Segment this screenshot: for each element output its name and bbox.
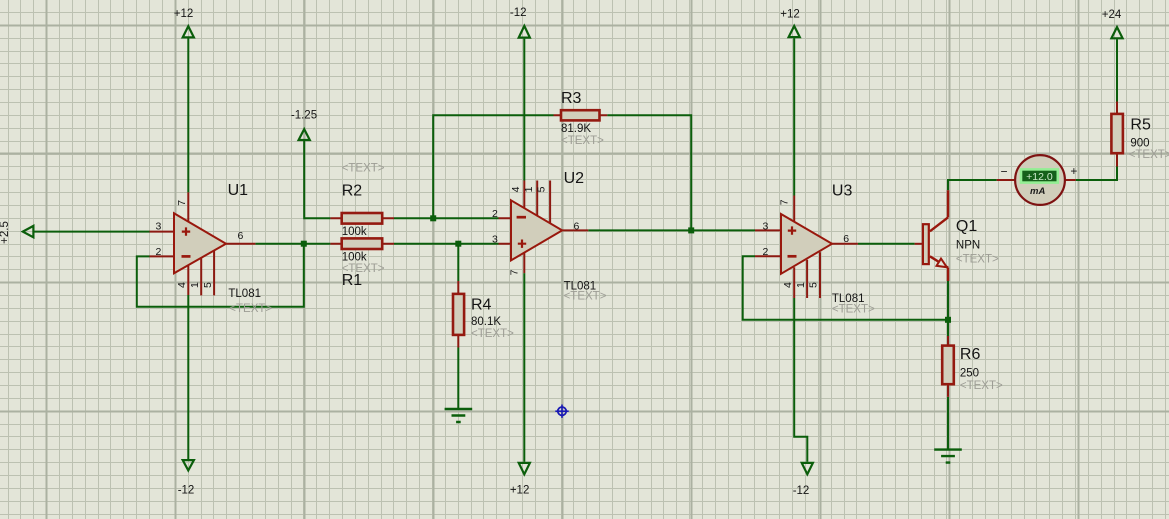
svg-text:−: − bbox=[1000, 164, 1007, 178]
power +12 top U3 arrow bbox=[789, 26, 800, 37]
label U3 placeholder bbox=[832, 303, 875, 315]
wire U2 pin7 to +12 bottom rail bbox=[523, 273, 525, 462]
label U3 value TL081 bbox=[832, 293, 865, 305]
wire R6 to ground bbox=[947, 397, 949, 449]
svg-text:6: 6 bbox=[574, 220, 580, 232]
svg-text:<TEXT>: <TEXT> bbox=[561, 135, 604, 147]
wire node A to R3 feedback bbox=[433, 115, 553, 218]
label R6 placeholder bbox=[960, 380, 1003, 392]
wire ammeter plus to R5 bbox=[1076, 167, 1117, 181]
wire R4 to ground bbox=[457, 348, 459, 409]
wire -1.25 input to R2 bbox=[304, 141, 330, 218]
resistor R5 bbox=[1111, 102, 1123, 167]
pin 2 U1 bbox=[155, 246, 161, 258]
pin 5 U2 bbox=[536, 186, 548, 192]
svg-text:81.9K: 81.9K bbox=[561, 123, 591, 135]
ground below R4 bbox=[445, 409, 473, 422]
label Q1 placeholder bbox=[956, 253, 999, 265]
junction node A R2-R3 bbox=[430, 215, 436, 221]
pin 5 U3 bbox=[808, 282, 820, 288]
label U3 ref bbox=[832, 182, 853, 199]
pin 1 U2 bbox=[523, 186, 535, 192]
svg-text:+12: +12 bbox=[510, 485, 530, 497]
pin 5 U1 bbox=[202, 282, 214, 288]
svg-text:mA: mA bbox=[1030, 186, 1045, 197]
resistor R2 bbox=[330, 213, 394, 224]
svg-text:<TEXT>: <TEXT> bbox=[956, 253, 999, 265]
label -12 bottom U3 bbox=[793, 485, 810, 497]
svg-text:+2.5: +2.5 bbox=[0, 221, 11, 244]
wire +12 rail to U3 pin7 bbox=[793, 38, 795, 195]
terminal +2.5 input arrow bbox=[23, 226, 34, 237]
wire U1 pin4 to -12 rail bbox=[187, 295, 189, 460]
svg-text:-12: -12 bbox=[178, 485, 195, 497]
label R4 ref bbox=[471, 296, 492, 313]
label R2 ref bbox=[342, 183, 363, 200]
pin 6 U2 bbox=[574, 220, 580, 232]
label R5 ref bbox=[1130, 116, 1151, 133]
wire R1 to U2 pin3 bbox=[394, 243, 499, 245]
resistor R1 bbox=[330, 238, 394, 249]
svg-text:-12: -12 bbox=[510, 7, 527, 19]
label R3 ref bbox=[561, 90, 582, 107]
svg-text:R1: R1 bbox=[342, 272, 363, 289]
label U2 value TL081 bbox=[564, 281, 597, 293]
svg-text:U3: U3 bbox=[832, 182, 853, 199]
wire -12 rail to U2 pin4 bbox=[523, 39, 525, 181]
svg-text:<TEXT>: <TEXT> bbox=[832, 303, 875, 315]
svg-text:<TEXT>: <TEXT> bbox=[960, 380, 1003, 392]
resistor R6 bbox=[942, 336, 954, 397]
label R3 value 81.9K bbox=[561, 123, 591, 135]
ammeter +12.0 mA bbox=[997, 155, 1078, 205]
pin 4 U1 bbox=[176, 282, 188, 288]
svg-text:+12: +12 bbox=[174, 8, 194, 20]
op-amp U3 bbox=[755, 196, 858, 299]
svg-text:4: 4 bbox=[176, 282, 188, 288]
wire U3 pin2 feedback to emitter node bbox=[743, 256, 948, 320]
pin 7 U2 bbox=[509, 269, 521, 275]
svg-text:-1.25: -1.25 bbox=[291, 110, 317, 122]
pin 1 U3 bbox=[795, 282, 807, 288]
svg-text:U1: U1 bbox=[228, 182, 249, 199]
junction node emitter R6 bbox=[945, 317, 951, 323]
svg-text:4: 4 bbox=[782, 282, 794, 288]
label R6 value 250 bbox=[960, 368, 979, 380]
pin 6 U1 bbox=[238, 230, 244, 242]
svg-text:2: 2 bbox=[492, 208, 498, 220]
label U1 value TL081 bbox=[228, 288, 261, 300]
label R3 placeholder bbox=[561, 135, 604, 147]
svg-text:7: 7 bbox=[509, 269, 521, 275]
pin 7 U3 bbox=[779, 199, 791, 205]
power -12 top-middle arrow bbox=[519, 26, 530, 38]
svg-text:+12.0: +12.0 bbox=[1026, 171, 1053, 183]
resistor R3 bbox=[554, 110, 608, 120]
power +12 bottom-middle arrow bbox=[519, 463, 530, 474]
op-amp U2 bbox=[499, 181, 589, 274]
svg-text:Q1: Q1 bbox=[956, 218, 977, 235]
wire U1 feedback pin2 loop bbox=[137, 244, 304, 307]
label R1 ref bbox=[342, 272, 363, 289]
pin 4 U3 bbox=[782, 282, 794, 288]
svg-text:3: 3 bbox=[492, 234, 498, 246]
label +12 bottom-middle bbox=[510, 485, 530, 497]
svg-text:TL081: TL081 bbox=[228, 288, 261, 300]
svg-text:+12: +12 bbox=[780, 8, 800, 20]
label U2 placeholder bbox=[564, 290, 607, 302]
label U1 ref bbox=[228, 182, 249, 199]
wire +2.5 input to U1 pin3 bbox=[34, 231, 149, 233]
svg-text:100k: 100k bbox=[342, 226, 367, 238]
svg-text:R3: R3 bbox=[561, 90, 582, 107]
svg-text:3: 3 bbox=[762, 221, 768, 233]
power +12 top-left arrow bbox=[183, 26, 194, 37]
power +24 top-right arrow bbox=[1111, 27, 1122, 38]
label R1 placeholder bbox=[342, 263, 385, 275]
svg-text:6: 6 bbox=[843, 233, 849, 245]
svg-text:3: 3 bbox=[155, 220, 161, 232]
ground below R6 bbox=[934, 450, 962, 463]
power -1.25 arrow bbox=[299, 129, 310, 140]
junction node U2 output R3 bbox=[688, 227, 694, 233]
wire R2 to U2 pin2 bbox=[394, 217, 499, 219]
svg-text:7: 7 bbox=[779, 199, 791, 205]
pin 3 U2 bbox=[492, 234, 498, 246]
label +12 top U3 bbox=[780, 8, 800, 20]
wire Q1 emitter down to R6 bbox=[947, 281, 949, 336]
label R1 value 100k bbox=[342, 252, 367, 264]
svg-text:<TEXT>: <TEXT> bbox=[229, 303, 272, 315]
svg-text:R5: R5 bbox=[1130, 116, 1151, 133]
svg-text:R4: R4 bbox=[471, 296, 492, 313]
wire R3 to U2 output node bbox=[607, 115, 691, 230]
svg-text:<TEXT>: <TEXT> bbox=[564, 290, 607, 302]
wire R5 to +24 rail bbox=[1116, 39, 1118, 101]
svg-text:80.1K: 80.1K bbox=[471, 316, 501, 328]
label +12 top-left bbox=[174, 8, 194, 20]
label R2 value 100k bbox=[342, 226, 367, 238]
svg-text:900: 900 bbox=[1130, 138, 1149, 150]
label U2 ref bbox=[564, 170, 585, 187]
label R5 value 900 bbox=[1130, 138, 1149, 150]
label R4 placeholder bbox=[471, 328, 514, 340]
label R5 placeholder bbox=[1129, 149, 1169, 161]
svg-text:5: 5 bbox=[202, 282, 214, 288]
label -1.25 bbox=[291, 110, 317, 122]
pin 1 U1 bbox=[189, 282, 201, 288]
wire U3 output to Q1 base bbox=[858, 243, 915, 245]
svg-text:250: 250 bbox=[960, 368, 979, 380]
svg-text:-12: -12 bbox=[793, 485, 810, 497]
label +24 top-right bbox=[1102, 9, 1122, 21]
svg-text:5: 5 bbox=[536, 186, 548, 192]
power -12 bottom-left arrow bbox=[183, 460, 194, 470]
wire node B down to R4 bbox=[457, 244, 459, 281]
label R4 value 80.1K bbox=[471, 316, 501, 328]
wire Q1 collector to ammeter bbox=[948, 180, 997, 190]
op-amp U1 bbox=[150, 192, 256, 295]
pin 2 U3 bbox=[762, 246, 768, 258]
wire U2 output to U3 pin3 bbox=[588, 229, 755, 231]
label R2 placeholder bbox=[342, 163, 385, 175]
label -12 top-middle bbox=[510, 7, 527, 19]
junction node U1 output feedback bbox=[301, 241, 307, 247]
svg-text:R2: R2 bbox=[342, 183, 363, 200]
svg-text:NPN: NPN bbox=[956, 239, 980, 251]
pin 3 U1 bbox=[155, 220, 161, 232]
label +2.5 input rotated bbox=[0, 221, 11, 244]
svg-text:R6: R6 bbox=[960, 346, 981, 363]
pin 6 U3 bbox=[843, 233, 849, 245]
svg-text:7: 7 bbox=[176, 200, 188, 206]
label -12 bottom-left bbox=[178, 485, 195, 497]
svg-text:<TEXT>: <TEXT> bbox=[1129, 149, 1169, 161]
origin marker blue bbox=[555, 405, 568, 418]
junction node B R1-R4 bbox=[455, 241, 461, 247]
svg-text:4: 4 bbox=[510, 186, 522, 192]
pin 3 U3 bbox=[762, 221, 768, 233]
pin 7 U1 bbox=[176, 200, 188, 206]
transistor Q1 bbox=[915, 190, 948, 281]
pin 4 U2 bbox=[510, 186, 522, 192]
svg-text:1: 1 bbox=[189, 282, 201, 288]
resistor R4 bbox=[453, 281, 464, 348]
svg-text:+24: +24 bbox=[1102, 9, 1122, 21]
wire U3 pin4 to -12 rail with jog bbox=[794, 298, 807, 462]
label R6 ref bbox=[960, 346, 981, 363]
svg-text:<TEXT>: <TEXT> bbox=[471, 328, 514, 340]
svg-text:<TEXT>: <TEXT> bbox=[342, 163, 385, 175]
svg-text:1: 1 bbox=[523, 186, 535, 192]
svg-text:2: 2 bbox=[762, 246, 768, 258]
wire +12 rail to U1 pin7 bbox=[187, 38, 189, 193]
svg-text:+: + bbox=[1070, 164, 1077, 178]
label Q1 ref bbox=[956, 218, 977, 235]
svg-text:U2: U2 bbox=[564, 170, 585, 187]
label Q1 value NPN bbox=[956, 239, 980, 251]
svg-text:5: 5 bbox=[808, 282, 820, 288]
wire U1 output to R1 bbox=[255, 243, 330, 245]
power -12 bottom U3 arrow bbox=[802, 463, 813, 474]
svg-text:2: 2 bbox=[155, 246, 161, 258]
svg-text:1: 1 bbox=[795, 282, 807, 288]
pin 2 U2 bbox=[492, 208, 498, 220]
svg-text:6: 6 bbox=[238, 230, 244, 242]
label U1 text placeholder bbox=[229, 303, 272, 315]
